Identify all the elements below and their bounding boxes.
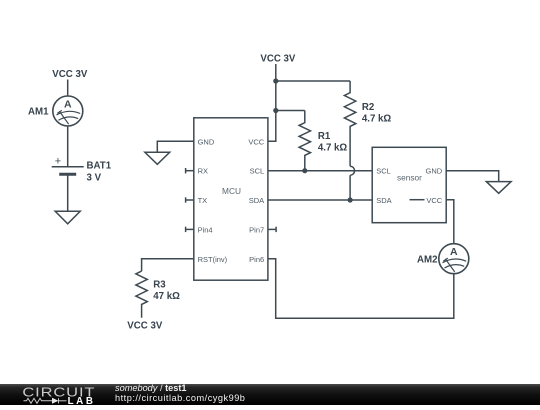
- wire MCU GND to ground: [157, 141, 194, 152]
- svg-text:SCL: SCL: [250, 167, 265, 176]
- svg-text:4.7 kΩ: 4.7 kΩ: [362, 113, 392, 124]
- junction node at VCC/R1 branch: [273, 108, 278, 113]
- svg-text:R3: R3: [153, 279, 166, 290]
- ground (sensor GND): [486, 182, 511, 194]
- resistor R2 4.7k: [344, 81, 355, 166]
- wire sensor GND to ground: [446, 171, 499, 182]
- svg-text:Pin4: Pin4: [198, 225, 213, 234]
- svg-text:BAT1: BAT1: [87, 160, 112, 171]
- junction node R2/SDA: [348, 197, 353, 202]
- wire AM2 bottom to MCU Pin6: [268, 259, 454, 318]
- svg-text:VCC: VCC: [248, 137, 264, 146]
- svg-text:47 kΩ: 47 kΩ: [153, 291, 180, 302]
- svg-text:Pin6: Pin6: [249, 255, 264, 264]
- wire R2 bottom to SDA line: [349, 175, 351, 200]
- svg-text:RX: RX: [198, 167, 208, 176]
- svg-text:LAB: LAB: [68, 396, 96, 405]
- pin stub Pin7 (unconnected): [268, 227, 276, 232]
- wire sensor VCC to ammeter AM2: [446, 200, 454, 244]
- svg-text:3 V: 3 V: [87, 172, 102, 183]
- wire junction to R2 top: [276, 80, 350, 82]
- pin stub VCC (sensor, inner dash): [410, 199, 425, 201]
- pin stub Pin4 (unconnected): [186, 227, 194, 232]
- wire MCU RST(inv) to R3: [142, 259, 194, 271]
- ground (left, below BAT1): [55, 211, 80, 224]
- svg-text:VCC 3V: VCC 3V: [52, 69, 88, 80]
- wire junction to R1 top: [276, 110, 305, 112]
- svg-text:4.7 kΩ: 4.7 kΩ: [318, 142, 348, 153]
- svg-text:SDA: SDA: [249, 196, 264, 205]
- pin stub RX (unconnected): [186, 168, 194, 173]
- svg-text:A: A: [450, 246, 458, 258]
- svg-text:SDA: SDA: [376, 196, 391, 205]
- svg-text:GND: GND: [426, 167, 443, 176]
- svg-text:+: +: [55, 156, 61, 168]
- MCU block body: [194, 118, 268, 280]
- wire SDA line MCU to sensor: [268, 199, 372, 201]
- svg-text:RST(inv): RST(inv): [198, 255, 228, 264]
- wire VCC 3V down to MCU VCC elbow: [268, 64, 276, 141]
- resistor R1 4.7k: [299, 111, 310, 171]
- ground (MCU GND): [145, 152, 170, 164]
- svg-text:GND: GND: [198, 137, 215, 146]
- resistor R3 47k: [136, 271, 147, 318]
- svg-text:A: A: [64, 98, 72, 110]
- pin stub TX (unconnected): [186, 197, 194, 202]
- wire hop of R2 branch over SCL line: [350, 166, 355, 175]
- svg-text:VCC 3V: VCC 3V: [260, 54, 296, 65]
- svg-text:AM1: AM1: [28, 106, 49, 117]
- wire VCC net to ammeter AM1: [67, 80, 69, 97]
- wire SCL line MCU to sensor: [268, 170, 372, 172]
- svg-text:TX: TX: [198, 196, 208, 205]
- ammeter AM1: [53, 96, 83, 126]
- svg-text:R1: R1: [318, 131, 331, 142]
- junction node R1/SCL: [302, 168, 307, 173]
- svg-text:AM2: AM2: [417, 254, 437, 265]
- CircuitLab logo: [0, 384, 110, 405]
- svg-text:VCC 3V: VCC 3V: [127, 320, 163, 331]
- wire ammeter AM1 to battery BAT1: [67, 126, 69, 167]
- ammeter AM2: [439, 244, 469, 274]
- svg-text:VCC: VCC: [426, 196, 442, 205]
- footer bar: [0, 384, 540, 405]
- wire battery BAT1 to ground: [67, 174, 69, 211]
- svg-text:SCL: SCL: [376, 167, 391, 176]
- svg-text:MCU: MCU: [222, 186, 241, 196]
- svg-text:Pin7: Pin7: [249, 225, 264, 234]
- junction node at VCC/R2 branch: [273, 78, 278, 83]
- sensor block body: [372, 147, 446, 222]
- svg-text:sensor: sensor: [397, 172, 422, 182]
- battery BAT1: [52, 156, 84, 175]
- svg-text:R2: R2: [362, 102, 374, 113]
